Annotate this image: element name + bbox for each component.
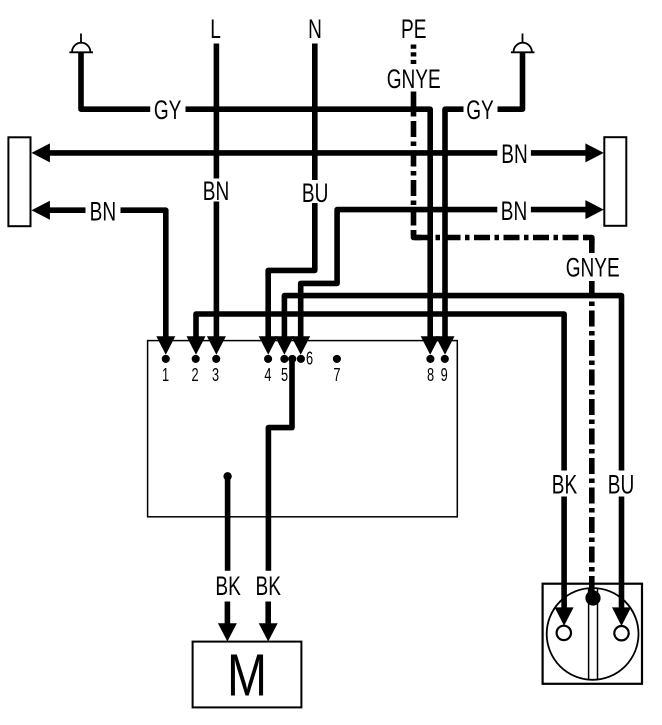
wire L (BN) down to terminal 3 <box>207 44 226 355</box>
svg-text:GNYE: GNYE <box>566 252 620 282</box>
wire BN short left: to terminal 1 <box>32 201 176 355</box>
wire BK inner: junction node to motor (right) <box>259 359 292 642</box>
svg-text:6: 6 <box>306 349 313 369</box>
svg-text:BN: BN <box>203 176 229 206</box>
wire BN right: from terminal 6 jog to right lamp block <box>291 200 604 355</box>
svg-text:4: 4 <box>264 366 271 386</box>
terminal 7 <box>333 355 341 363</box>
svg-text:3: 3 <box>212 366 219 386</box>
svg-text:7: 7 <box>333 366 340 386</box>
terminal 1 <box>162 355 170 363</box>
svg-text:BK: BK <box>552 469 578 499</box>
svg-text:BK: BK <box>255 571 281 601</box>
terminal box <box>148 341 458 517</box>
svg-text:PE: PE <box>401 14 426 44</box>
motor M1 box <box>193 642 302 708</box>
terminal 8 <box>426 355 434 363</box>
wire BK: terminal 2 across and down to socket pin L <box>187 314 574 626</box>
svg-text:BN: BN <box>501 196 527 226</box>
socket X1 (plug outlet body) <box>543 584 642 684</box>
svg-text:2: 2 <box>191 366 198 386</box>
wire BN long: between lamp blocks <box>32 143 604 162</box>
svg-text:BN: BN <box>501 139 527 169</box>
lamp holder block left <box>8 137 30 226</box>
terminal 5 <box>280 355 288 363</box>
wire BU: terminal 5 across and down to socket pin N <box>275 296 631 626</box>
terminal 9 <box>441 355 449 363</box>
wire BK motor left: from node inside box to motor <box>218 472 237 641</box>
wire GNYE dash-dot lower: down to socket earth <box>589 281 595 592</box>
terminal 6 <box>297 355 305 363</box>
svg-text:GY: GY <box>154 95 182 125</box>
socket pin N hole <box>614 626 628 640</box>
wire GY right: lamp E2 down and across to terminal 9 <box>436 52 523 355</box>
svg-text:9: 9 <box>441 366 448 386</box>
socket pin L hole <box>557 626 571 640</box>
svg-text:N: N <box>308 14 322 44</box>
terminal 3 <box>212 355 220 363</box>
wire PE dotted stub <box>411 45 417 65</box>
lamp E1 (left dome symbol) <box>69 34 93 53</box>
junction node (between 5 and 6) <box>288 355 296 363</box>
svg-text:M: M <box>227 643 267 709</box>
wire N (BU) down, jog left to terminal 4 <box>259 44 315 355</box>
socket earth pin node <box>585 590 600 605</box>
wire GY left: lamp E1 down and across to terminal 8 <box>81 52 440 355</box>
svg-text:BK: BK <box>215 571 241 601</box>
lamp E2 (right dome symbol) <box>511 34 535 53</box>
svg-text:8: 8 <box>427 366 434 386</box>
svg-text:BU: BU <box>608 469 634 499</box>
svg-text:GY: GY <box>466 95 494 125</box>
svg-text:BU: BU <box>302 178 328 208</box>
wire GNYE dash-dot upper: down and right <box>414 92 592 254</box>
svg-text:1: 1 <box>162 366 169 386</box>
terminal 4 <box>264 355 272 363</box>
svg-text:GNYE: GNYE <box>387 64 441 94</box>
terminal 2 <box>192 355 200 363</box>
lamp holder block right <box>604 137 626 226</box>
svg-text:5: 5 <box>281 366 288 386</box>
svg-text:L: L <box>210 14 221 44</box>
svg-text:BN: BN <box>90 196 116 226</box>
